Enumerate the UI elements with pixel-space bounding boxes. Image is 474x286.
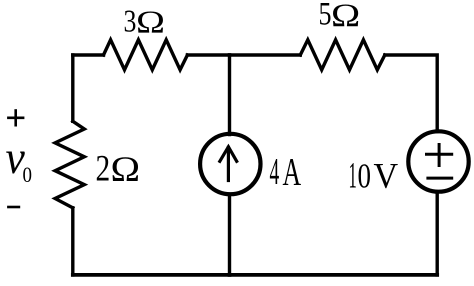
svg-text:Ω: Ω (331, 0, 360, 34)
wire: 2-ohm resistor to bottom-left corner (71, 208, 74, 275)
svg-text:Ω: Ω (111, 149, 141, 189)
node A (top junction) / wire: node A to 5-ohm resistor (230, 53, 301, 56)
arrow of current source (pointing up) (220, 147, 237, 181)
wire: top-left corner down to 2-ohm resistor (71, 55, 74, 121)
svg-text:0: 0 (358, 157, 372, 196)
plus sign inside voltage source (427, 145, 452, 166)
wire: 3-ohm resistor to node A (187, 53, 229, 56)
svg-text:0: 0 (23, 162, 33, 187)
svg-text:Ω: Ω (136, 5, 165, 40)
minus polarity mark of v0 (8, 206, 19, 209)
resistor R3 2-ohm (vertical zigzag) (55, 121, 84, 208)
wire: voltage source to bottom-right corner (436, 192, 439, 275)
node B (bottom junction) / wire: bottom-left segment (73, 273, 230, 277)
svg-text:4: 4 (270, 151, 280, 193)
svg-text:5: 5 (319, 0, 332, 33)
wire: current source to node B (228, 194, 231, 275)
resistor R2 5-ohm (horizontal zigzag) (300, 40, 385, 70)
svg-text:1: 1 (349, 155, 357, 196)
minus sign inside voltage source (428, 177, 452, 180)
svg-text:V: V (374, 156, 399, 196)
resistor R1 3-ohm (horizontal zigzag) (104, 40, 188, 70)
current source I1 4A (circle) (200, 134, 260, 194)
voltage source V1 10V (circle) (408, 131, 468, 191)
wire: top-left corner to 3-ohm resistor (73, 53, 104, 56)
wire: node A down to current source (228, 55, 231, 135)
svg-text:2: 2 (96, 148, 111, 189)
wire: 5-ohm resistor to top-right corner down to voltage source (385, 55, 437, 132)
plus polarity mark of v0 (8, 111, 23, 126)
wire: bottom-right segment (node B to bottom-right corner) (230, 273, 438, 277)
svg-text:3: 3 (124, 4, 137, 39)
svg-text:A: A (283, 150, 302, 194)
